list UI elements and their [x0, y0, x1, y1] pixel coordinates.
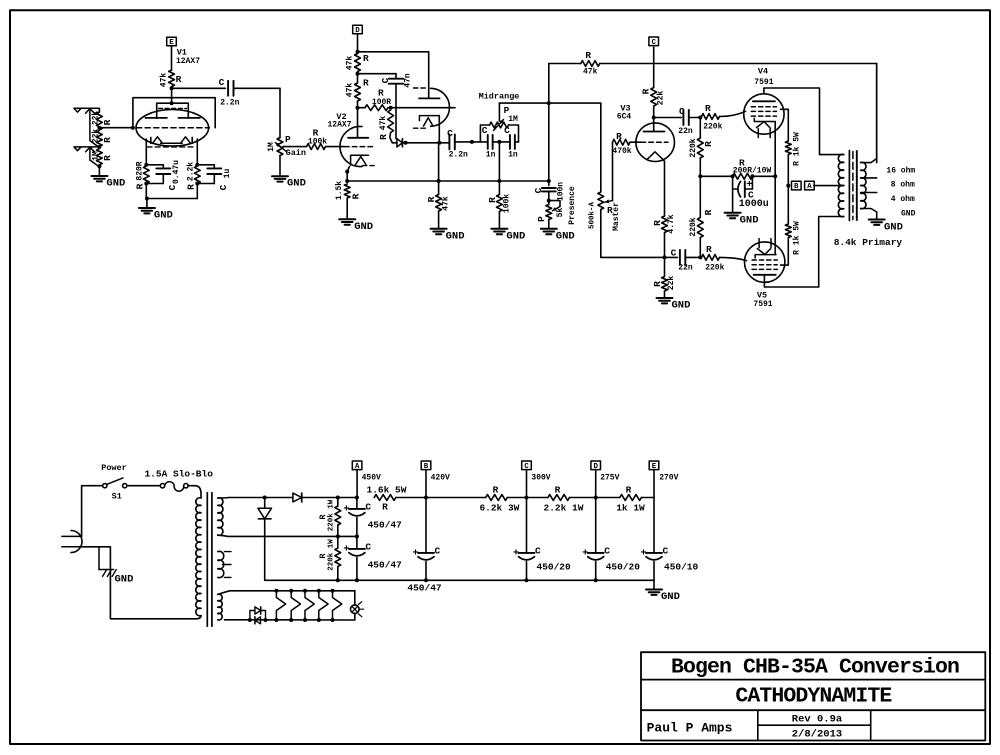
junction upper cathode	[437, 141, 441, 145]
ground presence	[541, 220, 575, 243]
label 16 ohm	[886, 167, 915, 176]
wire rail to C	[507, 497, 526, 499]
wire V5 screen	[781, 240, 789, 265]
svg-text:275V: 275V	[600, 474, 619, 483]
svg-text:R: R	[350, 193, 361, 199]
svg-text:S1: S1	[112, 492, 122, 502]
node C (B+ feed V3)	[649, 37, 659, 88]
svg-text:1000u: 1000u	[739, 199, 769, 210]
svg-text:GND: GND	[106, 178, 125, 190]
ground input	[91, 166, 125, 189]
tube V2 upper triode	[414, 88, 450, 128]
capacitor C 1n (midrange b)	[504, 125, 518, 160]
svg-text:450V: 450V	[362, 474, 381, 483]
diode D1 (bias clamp)	[392, 139, 402, 147]
wire wiper line to master	[499, 102, 600, 104]
wire HV bottom rail	[218, 534, 359, 538]
wire HV top	[218, 497, 265, 500]
node E (PSU)	[649, 461, 678, 498]
capacitor C 2.2n (coupling V1-gain)	[219, 77, 240, 108]
junction grid node	[97, 126, 101, 130]
svg-text:300V: 300V	[531, 474, 550, 483]
svg-text:22k: 22k	[91, 111, 100, 126]
junction cathodyne out	[663, 255, 667, 259]
title text Paul P Amps	[647, 721, 733, 736]
wire R100k to V2 grid	[326, 146, 345, 148]
fuse 1.5A Slo-Blo	[144, 469, 213, 492]
svg-text:C: C	[482, 125, 488, 136]
svg-text:C: C	[380, 77, 391, 83]
wire rail to D	[570, 497, 596, 499]
svg-text:R: R	[102, 119, 113, 125]
capacitor C 450/47 (filter 1)	[343, 498, 402, 537]
svg-text:V4: V4	[758, 66, 768, 76]
wire rail B-C	[426, 497, 486, 499]
svg-text:22k: 22k	[657, 91, 666, 106]
svg-text:CATHODYNAMITE: CATHODYNAMITE	[735, 685, 892, 709]
wire R47k to diode	[390, 133, 393, 143]
wire rail to E	[641, 497, 654, 499]
resistor R 22k (input grid stopper)	[91, 111, 113, 130]
svg-text:Rev 0.9a: Rev 0.9a	[792, 714, 843, 726]
wire midrange wiper up	[498, 103, 500, 121]
resistor R 1M (input load)	[91, 149, 113, 165]
jack J2 tip line	[74, 146, 99, 148]
resistor R 820R (V1 cathode)	[134, 161, 149, 189]
svg-text:220k: 220k	[689, 138, 698, 157]
transformer OT core	[849, 151, 856, 221]
wire V4 plate to OT	[764, 88, 844, 155]
jack J1 contact	[74, 109, 81, 113]
wire pot right bracket	[509, 125, 519, 142]
title block frame	[641, 652, 985, 740]
tube V1 plate structure box	[145, 88, 200, 118]
jack J1 sleeve arrow	[86, 109, 95, 114]
svg-text:100k: 100k	[308, 138, 327, 147]
svg-text:47k: 47k	[379, 116, 388, 131]
wire switch to fuse	[127, 485, 161, 487]
junction V2 lower plate node	[356, 106, 360, 110]
junction bias mid	[698, 158, 702, 178]
resistor R 220k (bias lower)	[689, 176, 714, 237]
svg-text:R: R	[318, 553, 328, 559]
label Midrange	[479, 92, 520, 102]
svg-text:4.7k: 4.7k	[667, 214, 676, 233]
wire master wiper	[605, 142, 613, 203]
capacitor C 100n (presence)	[533, 181, 566, 201]
svg-text:C: C	[535, 546, 541, 557]
wire to V5 grid	[720, 257, 747, 260]
svg-text:R: R	[426, 196, 437, 202]
svg-text:1.5k: 1.5k	[335, 181, 344, 200]
junction between plate loads	[356, 72, 360, 76]
wire plug neutral	[82, 547, 196, 619]
wire R4.7k down	[664, 233, 666, 258]
label 7591 V5	[753, 300, 772, 309]
junction V1 grid	[131, 126, 135, 130]
ground cathode bias	[725, 189, 759, 226]
wire V4 cathode	[774, 122, 776, 177]
resistor R 100k (tone load)	[487, 181, 512, 213]
capacitor C 22n (to V4)	[654, 106, 693, 136]
svg-text:450/20: 450/20	[537, 562, 572, 573]
resistor R 1.5k (V2 cathode)	[335, 181, 361, 200]
svg-text:200R/10W: 200R/10W	[733, 166, 772, 175]
label 6C4	[617, 113, 632, 122]
title text Bogen CHB-35A Conversion	[671, 656, 959, 680]
resistor R 47k (V2 plate load 2)	[345, 74, 369, 101]
label 7591 V4	[754, 78, 773, 87]
svg-text:2/8/2013: 2/8/2013	[792, 729, 842, 741]
svg-text:C: C	[671, 248, 677, 259]
node E (B+ feed V1)	[167, 37, 177, 70]
wire fuse to PT	[188, 486, 201, 498]
svg-text:220k 1W: 220k 1W	[327, 539, 335, 571]
svg-text:8.4k Primary: 8.4k Primary	[834, 237, 903, 248]
svg-text:16 ohm: 16 ohm	[886, 167, 915, 176]
svg-text:R: R	[703, 209, 714, 215]
label V2	[336, 112, 346, 122]
resistor R 47k (feedback)	[581, 50, 600, 77]
svg-text:R: R	[185, 184, 196, 190]
wire V1 plate to C2.2n	[172, 87, 226, 89]
svg-text:C: C	[365, 502, 371, 513]
wire bias bottom rail	[225, 618, 355, 622]
svg-text:270V: 270V	[659, 474, 678, 483]
label 8.4k Primary	[834, 237, 903, 248]
junction divider mid	[97, 145, 101, 149]
mains plug	[62, 531, 82, 553]
resistor R 1k 5W (V5 screen)	[785, 221, 801, 255]
svg-text:12AX7: 12AX7	[176, 57, 200, 66]
svg-text:R: R	[363, 78, 369, 89]
svg-text:5k: 5k	[556, 208, 565, 218]
tube V1 grid dashes	[137, 127, 210, 129]
svg-text:22n: 22n	[678, 127, 693, 136]
rectifier D1	[293, 493, 302, 502]
svg-text:+: +	[640, 549, 646, 560]
capacitor C 1000u (cathode bypass)	[733, 176, 769, 210]
wire secondary 8ohm tap	[861, 177, 877, 179]
wire D1 to A node	[302, 496, 359, 500]
wire V5 cathode	[774, 176, 776, 254]
ground R47k	[431, 211, 465, 242]
node C (PSU)	[522, 461, 551, 500]
node B (PSU)	[421, 461, 450, 500]
potentiometer P 1M Gain	[267, 134, 306, 158]
tube V1 grid wrap wire	[133, 98, 215, 128]
svg-text:C: C	[533, 187, 544, 193]
svg-text:+: +	[582, 549, 588, 560]
svg-text:2.2n: 2.2n	[449, 150, 468, 159]
wire V2 lower cathode	[347, 167, 349, 182]
tube V1 cathodes	[147, 137, 196, 147]
junction V5 grid node	[698, 255, 702, 259]
resistor R 22k (V3 plate)	[641, 88, 666, 107]
capacitor C 0.47u (V1 bypass)	[146, 160, 181, 191]
potentiometer Master 500k-A	[588, 103, 621, 231]
wire pot left bracket	[480, 125, 489, 142]
ground speaker	[869, 220, 903, 234]
ground V2 cathode	[339, 198, 373, 233]
svg-text:2.2k: 2.2k	[186, 162, 195, 181]
wire cap2 to grid node	[685, 256, 700, 258]
wire V2 upper cathode	[438, 116, 440, 143]
wire secondary 4ohm tap	[861, 192, 877, 194]
node D (PSU)	[591, 461, 620, 500]
svg-text:450/10: 450/10	[664, 562, 699, 573]
bias diode Db	[255, 617, 261, 624]
resistor bank (5x heater string)	[276, 591, 341, 620]
svg-text:GND: GND	[556, 230, 575, 242]
resistor R 6.2k 3W	[479, 485, 519, 514]
junction diode out	[404, 141, 408, 145]
capacitor C 450/20 (filter C)	[513, 498, 571, 583]
svg-text:Presence: Presence	[568, 186, 577, 225]
wire V1 cathode left leg	[145, 139, 147, 165]
svg-text:47k: 47k	[345, 83, 354, 98]
resistor R 220k 1W (bleeder 2)	[318, 536, 341, 580]
title text CATHODYNAMITE	[735, 685, 892, 709]
rectifier D2	[258, 498, 272, 581]
ground chassis	[99, 547, 133, 586]
pilot lamp	[351, 591, 364, 620]
resistor R 100k (V2 grid)	[307, 128, 328, 150]
ground V1 cathode	[139, 199, 173, 222]
svg-text:+: +	[343, 545, 349, 556]
ground PSU	[646, 580, 680, 603]
wire bottom rail	[265, 578, 654, 582]
resistor R 2.2k (V1 cathode 2)	[185, 162, 200, 190]
svg-text:1n: 1n	[508, 151, 518, 160]
capacitor C 1n (midrange a)	[482, 125, 496, 160]
resistor R 220k (V5 grid)	[702, 244, 725, 273]
junction midrange center	[493, 140, 519, 144]
svg-text:R: R	[555, 485, 561, 496]
resistor R 47k (V1 plate load)	[159, 70, 181, 87]
svg-text:7591: 7591	[753, 300, 772, 309]
svg-text:R: R	[176, 74, 182, 85]
svg-text:22k: 22k	[91, 129, 100, 144]
junction V3 plate node	[652, 106, 656, 131]
potentiometer P 5k Presence	[536, 186, 577, 225]
svg-text:GND: GND	[287, 178, 306, 190]
svg-text:7591: 7591	[754, 78, 773, 87]
svg-text:1M: 1M	[91, 151, 100, 161]
transformer PT heater winding	[218, 551, 231, 577]
wire secondary 16ohm	[861, 64, 877, 163]
resistor R 1.6k 5W	[367, 485, 407, 513]
junction presence top	[547, 192, 551, 205]
svg-text:450/47: 450/47	[368, 560, 403, 571]
svg-text:R: R	[102, 155, 113, 161]
svg-text:GND: GND	[446, 230, 465, 242]
capacitor C 450/10 (filter E)	[640, 498, 698, 581]
junction wiper-NFB	[547, 101, 551, 105]
ground gain pot	[272, 156, 306, 190]
node A (PSU)	[352, 461, 381, 498]
svg-text:R: R	[134, 183, 145, 189]
resistor R 100R (coupling)	[365, 88, 391, 111]
svg-text:GND: GND	[354, 221, 373, 233]
wire midrange center down	[498, 142, 500, 181]
svg-text:8 ohm: 8 ohm	[891, 181, 915, 190]
svg-text:1M: 1M	[508, 115, 518, 124]
svg-text:R: R	[641, 88, 652, 94]
node A (plate supply)	[805, 181, 844, 191]
svg-text:R: R	[378, 134, 389, 140]
svg-text:100n: 100n	[556, 182, 565, 201]
wire V4 screen	[781, 109, 789, 139]
svg-text:4 ohm: 4 ohm	[891, 195, 915, 204]
svg-text:47k: 47k	[159, 73, 168, 88]
label V1	[177, 48, 187, 58]
junction cathode right	[195, 163, 199, 167]
svg-text:820R: 820R	[135, 161, 144, 180]
wire bias to V5 grid node	[699, 238, 701, 258]
capacitor C filter B	[412, 498, 440, 583]
svg-text:C: C	[435, 546, 441, 557]
wire secondary gnd	[861, 209, 877, 220]
svg-text:C: C	[219, 77, 225, 88]
svg-text:C: C	[663, 546, 669, 557]
junction cathode left low	[144, 182, 148, 186]
wire bias top rail	[218, 589, 355, 595]
svg-text:GND: GND	[661, 591, 680, 603]
node B (screen supply)	[792, 181, 802, 191]
svg-text:R: R	[706, 244, 712, 255]
svg-text:B: B	[794, 183, 799, 191]
junction cathode b	[345, 179, 349, 183]
svg-text:1.6k 5W: 1.6k 5W	[367, 485, 407, 496]
svg-text:P: P	[285, 134, 291, 145]
junction cathode a	[345, 170, 349, 174]
ground R100k	[491, 212, 525, 243]
label 12AX7	[176, 57, 200, 66]
label 450/47 third	[407, 583, 442, 594]
junction node B	[786, 184, 790, 188]
wire rail C-R	[527, 497, 548, 499]
svg-text:2.2k 1W: 2.2k 1W	[544, 503, 584, 514]
svg-text:Midrange: Midrange	[479, 92, 520, 102]
svg-text:R: R	[102, 137, 113, 143]
resistor R 4.7k (V3 cathode)	[652, 214, 676, 233]
svg-text:0.47u: 0.47u	[172, 160, 181, 184]
capacitor C 47n (bypass)	[358, 73, 413, 138]
svg-text:GND: GND	[672, 300, 691, 312]
svg-text:470k: 470k	[612, 147, 631, 156]
transformer PT bias winding	[218, 594, 222, 620]
resistor R 470k (V3 grid)	[612, 131, 641, 156]
svg-text:6C4: 6C4	[617, 113, 632, 122]
wire diode to coupling cap	[402, 142, 449, 144]
junction doubler top	[263, 496, 267, 500]
tube V1 envelope	[136, 110, 209, 147]
svg-text:V5: V5	[757, 290, 767, 300]
svg-text:C: C	[218, 184, 229, 190]
svg-text:R: R	[487, 197, 498, 203]
wire rail A-B	[396, 497, 426, 499]
wire supply to upper plate	[358, 52, 429, 98]
svg-text:R: R	[626, 485, 632, 496]
title text 2/8/2013	[792, 729, 842, 741]
svg-text:Bogen CHB-35A Conversion: Bogen CHB-35A Conversion	[671, 656, 959, 680]
wire grid node to V1 grid	[99, 127, 132, 129]
junction cathode right low	[195, 182, 199, 186]
resistor R 220k (V4 grid)	[702, 103, 723, 132]
svg-text:450/20: 450/20	[606, 562, 641, 573]
resistor R 200R/10W	[731, 158, 778, 180]
svg-text:1M: 1M	[267, 142, 276, 152]
title text Rev 0.9a	[792, 714, 843, 726]
resistor R 220k (bias upper)	[689, 118, 714, 159]
svg-text:47k: 47k	[345, 56, 354, 71]
svg-text:+: +	[343, 505, 349, 516]
svg-text:47n: 47n	[403, 73, 412, 88]
capacitor C 450/47 (filter 2)	[343, 536, 402, 580]
wire node B to V5 screen resistor	[787, 186, 789, 222]
svg-text:C: C	[604, 546, 610, 557]
wire J1 sleeve down	[90, 109, 99, 147]
label S1	[112, 492, 122, 502]
svg-text:R: R	[363, 53, 369, 64]
svg-text:GND: GND	[740, 214, 759, 226]
transformer PT primary	[196, 498, 202, 619]
tube V2 lower triode	[340, 108, 374, 167]
wire cap to grid node	[689, 117, 701, 119]
wire V5 plate to OT	[764, 217, 843, 288]
wire preamp ground bus	[347, 179, 551, 183]
transformer OT secondary	[861, 162, 866, 208]
svg-text:Power: Power	[101, 463, 127, 473]
label 8 ohm	[891, 181, 915, 190]
wire master to cathode bus	[601, 210, 665, 258]
wire NFB vertical	[548, 64, 550, 182]
jack J1 tip line	[74, 108, 99, 112]
jack J2 contact	[74, 147, 81, 151]
svg-text:22n: 22n	[678, 264, 693, 273]
svg-text:Master: Master	[612, 202, 621, 231]
svg-text:P: P	[536, 216, 547, 222]
svg-text:C: C	[447, 128, 453, 139]
junction V4 grid node	[698, 116, 702, 120]
svg-text:1.5A Slo-Blo: 1.5A Slo-Blo	[144, 469, 213, 480]
svg-text:R: R	[652, 281, 663, 287]
tube V5 7591	[745, 239, 785, 283]
label Power	[101, 463, 127, 473]
resistor R 22k (tail)	[652, 257, 676, 291]
resistor R 47k (slope)	[426, 142, 451, 211]
bias diode Da	[250, 607, 266, 620]
svg-text:47k: 47k	[442, 196, 451, 211]
svg-text:Paul P Amps: Paul P Amps	[647, 721, 733, 736]
svg-text:220k: 220k	[705, 264, 724, 273]
tube V3	[636, 123, 675, 162]
svg-text:C: C	[167, 184, 178, 190]
wire NFB to output	[600, 64, 877, 163]
svg-text:GND: GND	[506, 230, 525, 242]
svg-text:100R: 100R	[372, 98, 391, 107]
svg-text:R: R	[585, 50, 591, 61]
svg-text:GND: GND	[884, 222, 903, 234]
resistor R 47k (V2 plate load 1)	[345, 53, 369, 72]
resistor R 1k 5W (V4 screen)	[785, 132, 801, 166]
wire cathode bias bus	[700, 175, 775, 177]
svg-text:100k: 100k	[502, 194, 511, 213]
wire cathode bottom rail	[145, 184, 197, 201]
wire rail D-R	[596, 497, 620, 499]
svg-text:47k: 47k	[583, 68, 598, 77]
